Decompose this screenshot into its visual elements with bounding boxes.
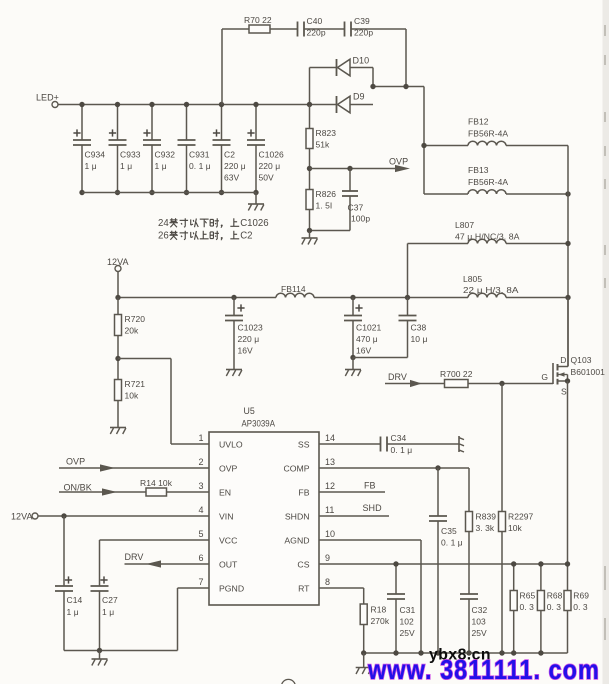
svg-text:C31: C31: [400, 605, 416, 615]
wire COMP: [319, 467, 469, 469]
svg-text:C934: C934: [85, 150, 106, 160]
svg-text:26: 26: [158, 231, 169, 242]
wire cap bank bottom rail: [82, 192, 256, 194]
wire PGND: [178, 587, 210, 589]
svg-text:3: 3: [198, 481, 203, 491]
wire: [117, 272, 119, 298]
junction bottom rail: [361, 650, 366, 655]
inductor L807: [408, 220, 569, 244]
svg-text:0. 1 μ: 0. 1 μ: [441, 538, 463, 548]
svg-text:25V: 25V: [472, 628, 488, 638]
svg-text:C2: C2: [224, 150, 235, 160]
svg-text:25V: 25V: [400, 628, 416, 638]
svg-text:470 μ: 470 μ: [356, 334, 378, 344]
capacitor C1021: [344, 298, 382, 358]
svg-text:UVLO: UVLO: [219, 440, 243, 450]
ground below R826: [302, 231, 318, 245]
resistor R14: [146, 488, 167, 496]
wire: [363, 625, 365, 654]
capacitor C31: [387, 564, 415, 653]
junction right rail L807: [565, 241, 570, 246]
svg-text:L807: L807: [455, 220, 474, 230]
junction bottom rail: [418, 650, 423, 655]
capacitor C34: [381, 433, 413, 455]
svg-text:C931: C931: [189, 150, 210, 160]
wire: [353, 357, 408, 359]
svg-text:8: 8: [325, 577, 330, 587]
capacitor C35: [429, 468, 463, 653]
junction C1023 tap: [231, 295, 236, 300]
wire SS: [319, 443, 381, 445]
svg-text:FB: FB: [364, 481, 376, 491]
node SHD stub: [319, 503, 389, 516]
node OVP out: [310, 157, 411, 173]
inductor FB12: [424, 117, 568, 146]
svg-text:D: D: [560, 355, 566, 365]
junction C27 ground: [97, 648, 102, 653]
node LED+: [36, 93, 59, 108]
wire AGND: [319, 539, 421, 541]
svg-text:R839: R839: [476, 512, 497, 522]
junction bottom rail: [538, 650, 543, 655]
capacitor C38: [399, 298, 428, 358]
capacitor C931: [178, 105, 211, 193]
junction C14 tap: [61, 513, 66, 518]
junction C1021 bottom: [350, 355, 355, 360]
scan artifact partial circle bottom: [281, 679, 295, 684]
wire: [167, 491, 210, 493]
wire: [309, 210, 311, 231]
junction C933 bottom: [115, 190, 120, 195]
junction R2297 tap: [499, 381, 504, 386]
svg-text:100p: 100p: [351, 214, 370, 224]
capacitor C933: [109, 105, 141, 193]
svg-text:C932: C932: [155, 150, 176, 160]
svg-text:0. 3: 0. 3: [573, 602, 588, 612]
svg-text:AGND: AGND: [284, 536, 309, 546]
junction bottom rail: [393, 650, 398, 655]
svg-text:D9: D9: [353, 92, 365, 102]
svg-text:R826: R826: [316, 189, 337, 199]
junction R720/R721: [115, 356, 120, 361]
wire C39 drop: [405, 29, 407, 87]
wire bottom ground rail: [364, 652, 568, 654]
junction C1021 tap: [350, 295, 355, 300]
junction C2 top: [219, 102, 224, 107]
wire: [373, 86, 424, 88]
svg-text:EN: EN: [219, 488, 231, 498]
svg-text:1 μ: 1 μ: [67, 607, 79, 617]
junction C932 bottom: [149, 190, 154, 195]
svg-text:B601001: B601001: [571, 367, 606, 377]
svg-text:C14: C14: [67, 595, 83, 605]
junction C35 tap: [435, 465, 440, 470]
svg-text:DRV: DRV: [125, 552, 144, 562]
wire diode right link: [372, 68, 374, 87]
svg-text:51k: 51k: [316, 140, 331, 150]
wire: [309, 149, 311, 190]
junction source: [565, 378, 570, 383]
capacitor C39: [345, 16, 374, 38]
junction R68 top: [538, 561, 543, 566]
scan artifacts right edge: [604, 25, 606, 640]
svg-text:RT: RT: [298, 584, 310, 594]
wire: [270, 28, 298, 30]
junction C1026 top: [253, 102, 258, 107]
junction bottom rail: [511, 650, 516, 655]
wire: [117, 298, 119, 315]
svg-text:C37: C37: [348, 203, 364, 213]
svg-text:ON/BK: ON/BK: [64, 483, 92, 493]
resistor R68: [537, 564, 562, 653]
svg-text:2: 2: [198, 457, 203, 467]
annotation chinese note: [158, 218, 269, 242]
svg-text:OVP: OVP: [389, 157, 408, 167]
svg-text:0. 3: 0. 3: [520, 602, 535, 612]
svg-text:S: S: [561, 387, 567, 397]
junction OVP node: [307, 166, 312, 171]
svg-text:10: 10: [325, 529, 335, 539]
junction bottom rail: [466, 650, 471, 655]
svg-text:220 μ: 220 μ: [224, 161, 246, 171]
junction diode anodes: [370, 84, 375, 89]
junction right rail L805: [565, 295, 570, 300]
resistor R721: [115, 380, 122, 401]
capacitor C1023: [225, 298, 263, 370]
junction R826/C37 bottom: [307, 228, 312, 233]
capacitor C1026: [247, 105, 284, 193]
svg-text:AP3039A: AP3039A: [242, 419, 276, 429]
svg-text:11: 11: [325, 505, 334, 515]
resistor R826: [306, 190, 313, 210]
wire: [117, 401, 119, 428]
node DRV out: [125, 552, 210, 568]
svg-text:U5: U5: [244, 406, 255, 416]
svg-text:1 μ: 1 μ: [102, 607, 114, 617]
svg-text:OUT: OUT: [219, 560, 238, 570]
svg-text:FB: FB: [298, 488, 309, 498]
wire: [222, 28, 249, 30]
node ON/BK: [59, 483, 146, 496]
resistor R2297: [499, 512, 506, 532]
svg-text:24: 24: [158, 218, 169, 229]
svg-text:20k: 20k: [125, 326, 140, 336]
svg-text:C40: C40: [307, 16, 323, 26]
svg-text:R14 10k: R14 10k: [140, 478, 173, 488]
wire: [117, 336, 119, 380]
svg-text:R2297: R2297: [508, 512, 534, 522]
junction C931 top: [184, 102, 189, 107]
svg-text:6: 6: [198, 553, 203, 563]
svg-text:C34: C34: [391, 433, 407, 443]
svg-text:D10: D10: [353, 56, 370, 66]
svg-text:C933: C933: [120, 150, 141, 160]
wire VCC: [100, 539, 210, 541]
svg-text:3. 3k: 3. 3k: [476, 523, 495, 533]
svg-text:C32: C32: [472, 605, 488, 615]
svg-text:1 μ: 1 μ: [155, 161, 167, 171]
ground below R721: [110, 428, 126, 435]
wire: [351, 28, 406, 30]
wire: [309, 105, 311, 129]
svg-text:OVP: OVP: [219, 464, 238, 474]
svg-text:C35: C35: [441, 526, 457, 536]
resistor R700: [445, 380, 469, 388]
wire: [468, 468, 470, 512]
svg-text:C38: C38: [411, 323, 427, 333]
wire R839 to C32: [468, 532, 470, 595]
ground below C1023: [226, 370, 242, 377]
capacitor C934: [73, 105, 105, 193]
svg-text:FB56R-4A: FB56R-4A: [468, 129, 508, 139]
junction FB12 tap: [421, 143, 426, 148]
resistor R18: [360, 604, 367, 625]
resistor R823: [306, 129, 313, 149]
node FB stub: [319, 481, 385, 493]
IC U5 AP3039A: [209, 406, 319, 605]
svg-text:DRV: DRV: [388, 372, 407, 382]
capacitor C37: [342, 169, 370, 231]
svg-text:Q103: Q103: [571, 355, 592, 365]
junction bottom rail: [435, 650, 440, 655]
svg-text:1: 1: [198, 433, 203, 443]
capacitor C932: [143, 105, 175, 193]
inductor FB114: [276, 284, 314, 298]
svg-text:63V: 63V: [224, 173, 240, 183]
svg-text:10 μ: 10 μ: [411, 334, 428, 344]
svg-text:LED+: LED+: [36, 93, 59, 103]
wire: [350, 67, 373, 69]
svg-text:1 μ: 1 μ: [120, 161, 132, 171]
svg-text:R69: R69: [573, 591, 589, 601]
svg-text:47 μ H/NC/3. 8A: 47 μ H/NC/3. 8A: [455, 232, 520, 242]
svg-text:0. 3: 0. 3: [547, 602, 562, 612]
svg-text:C27: C27: [102, 595, 118, 605]
scan page edge strip: [603, 0, 609, 684]
wire: [350, 104, 373, 106]
svg-text:C39: C39: [354, 16, 370, 26]
svg-text:R720: R720: [125, 314, 146, 324]
svg-text:www. 3811111. com: www. 3811111. com: [367, 655, 600, 684]
svg-text:22 μ H/3. 8A: 22 μ H/3. 8A: [463, 285, 519, 295]
svg-text:12VA: 12VA: [107, 257, 129, 267]
wire rail to drain: [567, 298, 569, 367]
ground below C1021: [345, 358, 361, 377]
svg-text:R70 22: R70 22: [244, 15, 272, 25]
svg-text:4: 4: [198, 505, 203, 515]
junction R69 top: [565, 561, 570, 566]
svg-text:C2: C2: [240, 231, 252, 242]
junction R65 top: [511, 561, 516, 566]
svg-text:10k: 10k: [508, 523, 523, 533]
svg-text:FB56R-4A: FB56R-4A: [468, 177, 508, 187]
capacitor C27: [91, 540, 118, 651]
svg-text:50V: 50V: [259, 173, 275, 183]
wire: [304, 28, 345, 30]
svg-text:C1021: C1021: [356, 323, 382, 333]
svg-text:9: 9: [325, 553, 330, 563]
junction C38/L807 tap: [405, 295, 410, 300]
junction C934 bottom: [79, 190, 84, 195]
svg-text:PGND: PGND: [219, 584, 244, 594]
diode D10: [337, 56, 370, 77]
svg-text:C1023: C1023: [238, 323, 264, 333]
node DRV in: [385, 372, 445, 387]
svg-text:VCC: VCC: [219, 536, 237, 546]
wire rail to L805: [314, 297, 468, 299]
svg-text:FB12: FB12: [468, 117, 489, 127]
junction C931 bottom: [184, 190, 189, 195]
svg-text:R700 22: R700 22: [440, 369, 473, 379]
junction C932 top: [149, 102, 154, 107]
svg-text:13: 13: [325, 457, 335, 467]
svg-text:7: 7: [198, 577, 203, 587]
svg-text:G: G: [541, 372, 548, 382]
resistor R65: [510, 564, 535, 653]
svg-text:FB114: FB114: [281, 284, 306, 294]
svg-text:L805: L805: [463, 274, 482, 284]
svg-text:SHD: SHD: [363, 503, 383, 513]
svg-text:0. 1 μ: 0. 1 μ: [189, 161, 211, 171]
wire into pin 1: [171, 443, 209, 445]
junction C37 tap: [347, 166, 352, 171]
svg-text:FB13: FB13: [468, 165, 489, 175]
junction C934 top: [79, 102, 84, 107]
junction C39 tap: [403, 84, 408, 89]
junction right rail FB13: [565, 191, 570, 196]
resistor R839: [466, 512, 473, 532]
node OVP in: [59, 457, 209, 472]
node 12VA terminal: [107, 257, 129, 272]
wire 12VA rail: [118, 297, 276, 299]
svg-text:16V: 16V: [356, 346, 372, 356]
svg-text:VIN: VIN: [219, 512, 233, 522]
svg-text:14: 14: [325, 433, 335, 443]
svg-text:16V: 16V: [238, 346, 254, 356]
svg-text:1. 5I: 1. 5I: [316, 201, 333, 211]
ground below C27: [92, 651, 108, 666]
wire right rail: [567, 146, 569, 367]
svg-text:R721: R721: [125, 379, 146, 389]
svg-text:10k: 10k: [125, 391, 140, 401]
svg-text:270k: 270k: [371, 616, 390, 626]
ground at C34: [458, 436, 460, 452]
wire D10-D9 left link: [309, 68, 311, 105]
resistor R720: [115, 315, 122, 336]
junction C933 top: [115, 102, 120, 107]
wire C14/C27 ground rail: [64, 650, 178, 652]
svg-text:220 μ: 220 μ: [259, 161, 281, 171]
svg-text:R68: R68: [547, 591, 563, 601]
ground at bottom rail: [356, 653, 372, 674]
diode D9: [337, 92, 365, 114]
svg-text:CS: CS: [297, 560, 309, 570]
svg-text:220 μ: 220 μ: [238, 334, 260, 344]
wire: [363, 588, 365, 604]
svg-text:R823: R823: [316, 128, 337, 138]
svg-text:SS: SS: [298, 440, 310, 450]
svg-text:C1026: C1026: [259, 150, 285, 160]
wire R2297 column: [501, 384, 503, 512]
wire L807 left drop: [407, 244, 409, 298]
wire RT: [319, 587, 364, 589]
wire to UVLO: [118, 358, 171, 360]
resistor R69: [564, 564, 589, 653]
inductor L805: [463, 274, 568, 298]
wire VIN: [38, 515, 209, 517]
svg-text:C1026: C1026: [240, 218, 268, 229]
ground below C1026: [248, 193, 264, 211]
svg-text:SHDN: SHDN: [285, 512, 310, 522]
svg-text:R65: R65: [520, 591, 536, 601]
svg-text:R18: R18: [371, 605, 387, 615]
junction C2 bottom: [219, 190, 224, 195]
junction C31/CS: [393, 561, 398, 566]
node 12VA left terminal: [11, 512, 38, 522]
wire: [310, 67, 337, 69]
capacitor C40: [298, 16, 326, 38]
wire: [177, 588, 179, 651]
svg-text:12VA: 12VA: [11, 512, 33, 522]
capacitor C32: [460, 594, 487, 653]
wire: [310, 230, 351, 232]
junction rail / D9 / R823: [307, 102, 312, 107]
wire to gate: [468, 383, 553, 385]
svg-text:102: 102: [400, 617, 415, 627]
resistor R70: [249, 25, 270, 33]
wire down to FB13: [423, 87, 425, 195]
svg-text:COMP: COMP: [283, 464, 309, 474]
inductor FB13: [424, 165, 568, 194]
wire: [387, 443, 459, 445]
svg-text:OVP: OVP: [66, 457, 85, 467]
svg-text:5: 5: [198, 529, 203, 539]
wire AGND drop: [420, 540, 422, 653]
wire CS row: [319, 563, 568, 565]
wire: [170, 359, 172, 445]
junction C1026 bottom: [253, 190, 258, 195]
junction 12VA: [115, 295, 120, 300]
junction bottom rail: [499, 650, 504, 655]
wire R70 drop to rail: [221, 29, 223, 105]
capacitor C14: [55, 516, 82, 651]
svg-text:12: 12: [325, 481, 335, 491]
watermark www.3811111.com: [367, 655, 600, 684]
svg-text:1 μ: 1 μ: [85, 161, 97, 171]
capacitor C2: [213, 105, 246, 193]
svg-text:103: 103: [472, 617, 487, 627]
wire source to CS row: [567, 381, 569, 564]
wire LED+ top rail: [58, 104, 310, 106]
transistor Q103: [541, 355, 605, 397]
wire: [310, 104, 337, 106]
svg-text:0. 1 μ: 0. 1 μ: [391, 445, 413, 455]
